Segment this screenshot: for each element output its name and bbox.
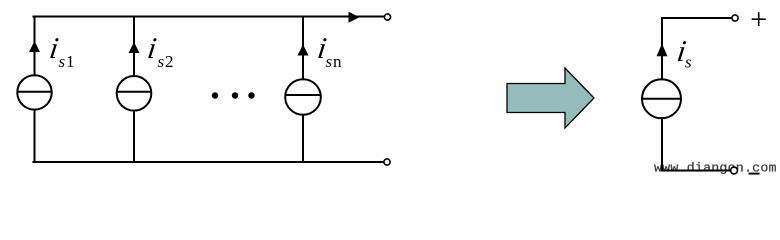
svg-text:2: 2 — [165, 52, 174, 71]
svg-text:1: 1 — [66, 52, 75, 71]
svg-text:s: s — [685, 53, 692, 72]
svg-text:s: s — [59, 52, 66, 71]
svg-text:s: s — [326, 52, 333, 71]
svg-text:s: s — [158, 52, 165, 71]
svg-text:n: n — [333, 52, 342, 71]
